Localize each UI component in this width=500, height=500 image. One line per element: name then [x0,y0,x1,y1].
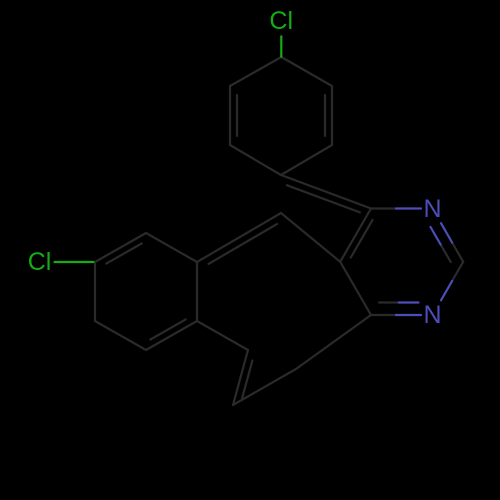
bond C4=C5 main [340,209,371,262]
bond left ring A-B [196,262,198,321]
double inner Tur=Tlr [324,95,326,136]
bond N1=C6 inner [379,301,399,303]
bond c1 Tb=C4 main [281,175,371,209]
bond c5 inner [242,361,252,399]
bond c6 C6-E [296,315,371,369]
bond c1 inner [287,185,360,212]
svg-text:N: N [423,301,441,329]
bond left ring Lbot-Lll [95,321,146,350]
double inner Tll=Tul [236,95,238,136]
bond top ring Tlr-Tb [281,145,332,175]
bond top ring Tt-Tur [281,57,332,86]
bond top ring Tur-Tlr [331,86,333,145]
bond top ring Tll-Tul [229,86,231,145]
bond C5-C6 [340,262,371,315]
bond left ring B-Lbot [146,321,197,350]
bond N3=C2 inner [441,245,451,263]
bond C-Cl left (green) [55,261,94,263]
svg-text:Cl: Cl [269,7,293,35]
bond c4 B-Cc [197,321,248,350]
double inner B=Lbot [150,319,185,339]
svg-text:Cl: Cl [28,248,52,276]
bond c2 A=X1 main [197,213,281,262]
bond left ring La-Lt [95,233,146,262]
bond c2 inner [209,224,277,264]
bond c7 E-D [233,369,296,405]
bond C4=C5 inner [351,220,373,258]
bond c3 X1-C5 [281,213,340,262]
bond c5 Cc=D main [233,350,248,405]
bond N1=C6 main [371,314,396,316]
bond top ring Tb-Tll [230,145,281,175]
bond top ring Tul-Tt [230,57,281,86]
double inner La=Lt [106,244,141,264]
bond left ring Lt-A [146,233,197,262]
svg-text:N: N [423,195,441,223]
bond C4-N3 [371,207,396,209]
bond N3=C2 main [452,243,463,262]
bond left ring Lll-La [94,262,96,321]
bond C2-N1 [452,262,463,281]
bond C-Cl top (green) [280,36,282,56]
